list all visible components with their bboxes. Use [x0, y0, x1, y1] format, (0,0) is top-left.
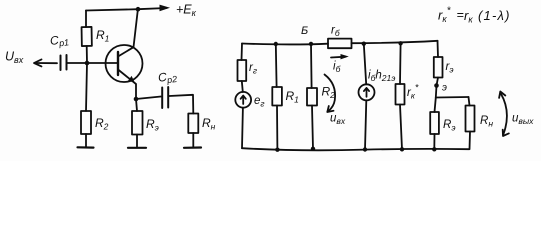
capacitor CP2 — [136, 97, 161, 100]
svg-text:iб: iб — [333, 61, 342, 75]
svg-text:rэ: rэ — [446, 61, 454, 75]
resistor R1 (left circuit) — [85, 11, 87, 28]
capacitor CP1 — [60, 56, 62, 71]
resistor Re (equiv) — [435, 98, 436, 113]
transistor VT (npn) — [106, 45, 143, 82]
input terminal arrow Uvx — [35, 62, 57, 64]
svg-text:Rэ: Rэ — [443, 119, 456, 133]
collector — [118, 10, 138, 57]
emitter — [118, 70, 136, 100]
svg-text:Rэ: Rэ — [146, 117, 159, 133]
ground under Rn — [184, 146, 201, 149]
wire: right circuit top rail left part — [242, 43, 328, 46]
resistor re (equiv) — [437, 41, 440, 57]
node: base node — [85, 61, 90, 66]
uvyx annotation curved arrow — [501, 94, 507, 135]
svg-text:rг: rг — [249, 62, 257, 76]
svg-text:Uвх: Uвх — [5, 50, 24, 66]
svg-text:rб: rб — [331, 25, 341, 39]
ground under Re — [128, 147, 146, 149]
svg-text:rк*: rк* — [407, 83, 419, 101]
svg-text:Б: Б — [301, 25, 308, 37]
node: collector top junction — [136, 7, 141, 12]
svg-text:iбh21э: iбh21э — [368, 70, 395, 84]
wire: top rail right part — [352, 41, 438, 43]
resistor rb (series, in rail) — [328, 39, 352, 49]
resistor rg — [238, 60, 247, 81]
svg-text:Rн: Rн — [480, 115, 493, 129]
svg-text:э: э — [442, 83, 447, 94]
resistor R2 (equiv) — [309, 42, 313, 46]
wire: cap to Rn — [169, 95, 193, 114]
resistor Rn (left circuit) — [188, 114, 198, 134]
uvx annotation curved arrow — [325, 75, 336, 112]
node E (emitter) — [434, 83, 439, 88]
svg-text:rк: rк — [464, 8, 473, 25]
svg-text:=: = — [457, 8, 464, 22]
svg-text:Rн: Rн — [202, 116, 216, 132]
svg-text:+Eк: +Eк — [176, 3, 197, 19]
svg-text:(1-λ): (1-λ) — [478, 8, 511, 23]
wire: cap to base — [68, 62, 118, 64]
resistor Rn (equiv) — [469, 97, 470, 106]
wire: bottom rail — [242, 148, 469, 150]
wire: node E to Rn branch — [436, 96, 469, 99]
current arrow ib — [331, 56, 346, 59]
svg-text:R1: R1 — [96, 28, 110, 44]
resistor rk* — [398, 41, 402, 45]
wire: supply arrow to +Ek — [138, 8, 167, 9]
wire: left circuit top rail — [86, 9, 138, 10]
svg-text:rк*: rк* — [438, 6, 452, 25]
svg-text:R2: R2 — [95, 116, 109, 132]
current source ib*h21e — [362, 42, 366, 46]
resistor Re (left circuit) — [136, 99, 137, 111]
resistor R1 (equiv) — [274, 42, 278, 46]
svg-text:uвых: uвых — [512, 113, 534, 127]
svg-text:eг: eг — [254, 95, 265, 109]
resistor R2 (left circuit) — [86, 63, 87, 111]
svg-text:Cр1: Cр1 — [49, 32, 69, 50]
svg-text:R1: R1 — [286, 89, 300, 105]
node: emitter node — [134, 97, 139, 102]
ground under R2 — [78, 146, 94, 149]
svg-text:Cр2: Cр2 — [157, 68, 178, 86]
svg-text:uвх: uвх — [330, 113, 346, 127]
source branch: rg + eg — [241, 44, 244, 61]
source eg (circle, up arrow) — [235, 92, 251, 108]
